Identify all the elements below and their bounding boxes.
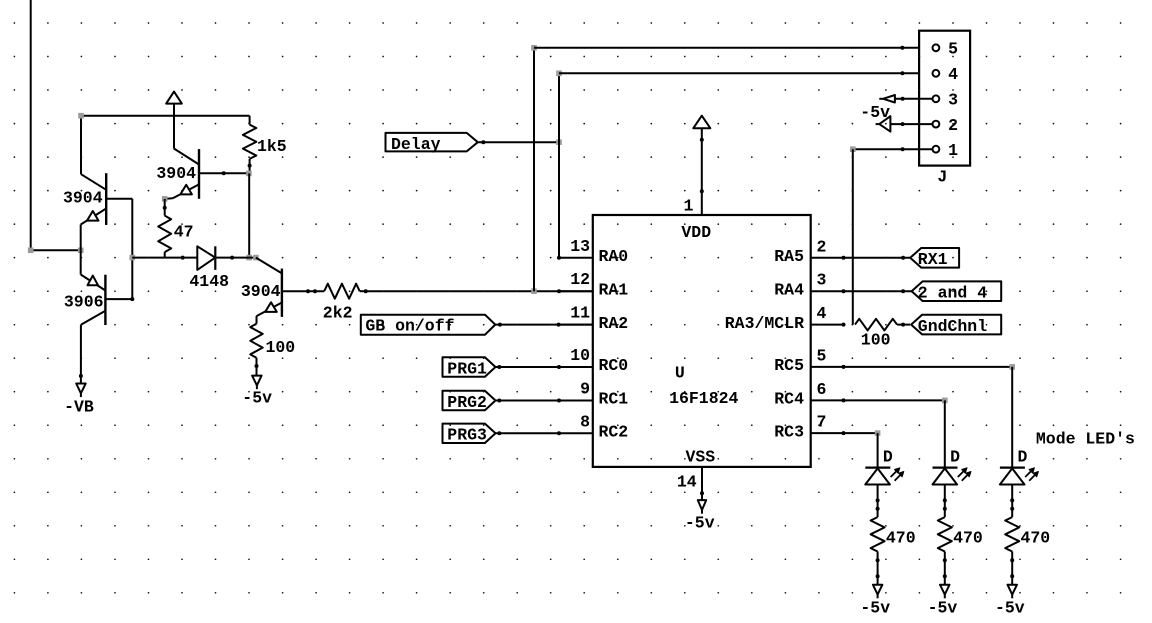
label 47 — [174, 223, 194, 242]
svg-text:-5v: -5v — [860, 598, 890, 617]
pin 9 RC1 — [559, 380, 628, 409]
label -5v left — [242, 389, 272, 408]
svg-text:RX1: RX1 — [918, 250, 948, 269]
pin 7 RC3 — [774, 413, 877, 442]
wire Q2 collector to -VB — [79, 325, 83, 384]
label PRG3 — [447, 426, 487, 445]
label GB on/off — [365, 317, 454, 336]
label -5v VSS — [685, 514, 715, 533]
svg-text:470: 470 — [953, 529, 983, 548]
svg-text:10: 10 — [570, 346, 590, 365]
flag GB on/off — [361, 315, 496, 335]
arrow J pin3 — [879, 95, 933, 103]
svg-text:PRG1: PRG1 — [447, 359, 487, 378]
label -5v J — [860, 103, 890, 122]
LED D3 — [1000, 468, 1039, 485]
svg-text:4148: 4148 — [189, 272, 229, 291]
LED D1 — [865, 468, 904, 485]
svg-text:GndChnl: GndChnl — [918, 317, 987, 336]
svg-text:J: J — [937, 168, 947, 187]
label 2k2 — [323, 304, 353, 323]
junction diode node — [246, 255, 252, 261]
wire J pin5 net — [534, 46, 933, 50]
svg-text:6: 6 — [817, 380, 827, 399]
label 2 and 4 — [918, 284, 987, 303]
power -5v symbol LED2 — [940, 585, 950, 599]
wire VCC rail top-left — [81, 116, 250, 175]
pin 13 RA0 — [559, 237, 628, 266]
label 16F1824 — [669, 389, 738, 408]
label -5v LED1 — [860, 598, 890, 617]
wire emitter node to diode — [132, 256, 197, 260]
label Q2 3906 — [64, 293, 104, 312]
wire PRG3 to pin — [496, 431, 562, 435]
label 100 — [266, 338, 296, 357]
power -VB symbol — [76, 384, 86, 398]
LED D2 — [933, 468, 972, 485]
svg-text:RA3/MCLR: RA3/MCLR — [725, 314, 804, 333]
wire riser pin4/RA0 — [557, 73, 561, 259]
svg-text:VSS: VSS — [686, 448, 716, 467]
svg-text:RC0: RC0 — [599, 356, 629, 375]
junction 1k5 bottom / Q3 base — [246, 171, 252, 177]
resistor R5 100 — [855, 319, 910, 331]
label -5v LED2 — [928, 598, 958, 617]
svg-text:1: 1 — [683, 197, 693, 216]
svg-text:RC4: RC4 — [774, 390, 804, 409]
label Q4 3904 — [241, 282, 281, 301]
label D3 — [1018, 448, 1028, 467]
pin 6 RC4 — [774, 380, 945, 409]
transistor Q4 3904 NPN — [256, 258, 324, 317]
svg-text:2k2: 2k2 — [323, 304, 353, 323]
resistor R3 2k2 — [324, 284, 368, 299]
diode D1 4148 — [197, 246, 215, 270]
svg-text:5: 5 — [817, 346, 827, 365]
junction riser pin4 top — [556, 71, 562, 77]
junction LED3 corner — [1009, 364, 1015, 370]
flag RX1 — [910, 248, 959, 268]
wire pin to LED2 — [944, 400, 946, 467]
svg-text:U: U — [675, 364, 685, 383]
resistor 470 #3 — [1005, 517, 1019, 585]
label 1k5 — [257, 137, 287, 156]
svg-text:D: D — [950, 448, 960, 467]
svg-text:13: 13 — [570, 237, 590, 256]
transistor Q1 3904 NPN — [81, 173, 133, 250]
svg-text:-VB: -VB — [64, 398, 94, 417]
wire RA1 net — [366, 289, 593, 293]
pin 3 RA4 — [774, 271, 911, 300]
power VDD symbol — [693, 116, 710, 129]
transistor Q2 3906 PNP — [81, 250, 135, 325]
svg-text:-5v: -5v — [242, 389, 272, 408]
pin 11 RA2 — [559, 304, 628, 333]
junction emitter node — [78, 248, 84, 254]
label VSS — [686, 448, 716, 467]
svg-text:3904: 3904 — [241, 282, 281, 301]
wire J pin1 net — [853, 147, 933, 151]
resistor R2 47 — [158, 199, 171, 258]
wire LED1 to resistor — [876, 485, 880, 518]
label 470 #1 — [886, 529, 916, 548]
svg-text:470: 470 — [1021, 529, 1051, 548]
junction riser pin5 top — [531, 45, 537, 51]
svg-text:RC5: RC5 — [774, 356, 804, 375]
wire LED2 to resistor — [943, 485, 947, 518]
pin 1 VDD stub — [683, 128, 703, 215]
label Q1 3904 — [63, 189, 103, 208]
resistor 470 #2 — [938, 517, 952, 585]
wire base bus Q1-Q2 — [131, 199, 133, 299]
junction pin1 corner — [850, 146, 856, 152]
svg-text:2: 2 — [817, 237, 827, 256]
svg-text:3906: 3906 — [64, 293, 104, 312]
label PRG1 — [447, 359, 487, 378]
wire diode to node — [215, 256, 256, 260]
resistor 470 #1 — [871, 517, 885, 585]
power -5v symbol LED1 — [873, 585, 883, 599]
svg-text:11: 11 — [570, 304, 590, 323]
resistor R1 1k5 — [243, 116, 256, 174]
svg-text:100: 100 — [861, 331, 891, 350]
pin 5 RC5 — [774, 346, 1012, 375]
svg-text:470: 470 — [886, 529, 916, 548]
svg-text:7: 7 — [817, 413, 827, 432]
transistor Q3 3904 NPN — [165, 148, 249, 199]
label D1 — [883, 448, 893, 467]
svg-text:3: 3 — [817, 271, 827, 290]
svg-text:Delay: Delay — [391, 135, 441, 154]
label Mode LED's — [1036, 430, 1135, 449]
wire riser pin1 to RA3/MCLR — [852, 149, 854, 324]
label GndChnl — [918, 317, 987, 336]
power -5v symbol left — [252, 376, 262, 390]
svg-text:D: D — [883, 448, 893, 467]
wire pin to LED1 — [877, 433, 879, 468]
svg-text:D: D — [1018, 448, 1028, 467]
svg-text:RC3: RC3 — [774, 422, 804, 441]
label -5v LED3 — [995, 598, 1025, 617]
svg-text:PRG2: PRG2 — [447, 393, 487, 412]
label Delay — [391, 135, 441, 154]
junction RA1 / pin5 riser — [531, 288, 537, 294]
junction Q4 collector — [253, 255, 259, 261]
junction LED2 corner — [942, 398, 948, 404]
svg-text:PRG3: PRG3 — [447, 426, 487, 445]
power -5v symbol VSS — [698, 500, 706, 514]
svg-text:4: 4 — [817, 304, 827, 323]
label -VB — [64, 398, 94, 417]
label 470 #2 — [953, 529, 983, 548]
junction input corner — [28, 248, 34, 254]
svg-text:12: 12 — [570, 270, 590, 289]
label 470 #3 — [1021, 529, 1051, 548]
svg-text:RA5: RA5 — [774, 247, 804, 266]
wire RA4 tick — [901, 289, 905, 293]
svg-text:-5v: -5v — [995, 598, 1025, 617]
pin 8 RC2 — [559, 412, 628, 441]
label 100 right — [861, 331, 891, 350]
svg-text:VDD: VDD — [681, 223, 711, 242]
svg-text:RC2: RC2 — [599, 423, 629, 442]
pin 2 RA5 — [774, 237, 910, 266]
label 4148 — [189, 272, 229, 291]
connector J pins — [933, 40, 959, 160]
power -5v arrow J pin2 — [876, 116, 934, 131]
flag PRG2 — [443, 391, 496, 410]
svg-text:4: 4 — [948, 65, 958, 84]
wire PRG1 to pin — [496, 365, 562, 369]
wire pin to LED3 — [1011, 367, 1013, 468]
wire Delay to RA0 riser — [478, 140, 559, 144]
wire LED3 to resistor — [1010, 485, 1014, 518]
junction Delay riser — [556, 139, 562, 145]
svg-text:3904: 3904 — [156, 164, 196, 183]
svg-text:14: 14 — [677, 473, 697, 492]
svg-text:-5v: -5v — [685, 514, 715, 533]
IC U 16F1824 body — [593, 215, 811, 467]
wire GB to RA2 — [495, 323, 593, 327]
power VCC symbol — [166, 92, 182, 149]
svg-text:5: 5 — [948, 40, 958, 59]
svg-text:-5v: -5v — [928, 598, 958, 617]
flag PRG1 — [443, 357, 496, 376]
junction VCC rail left corner — [78, 113, 84, 119]
junction LED1 corner — [875, 430, 881, 436]
svg-text:2 and 4: 2 and 4 — [918, 284, 987, 303]
svg-text:2: 2 — [948, 116, 958, 135]
svg-text:RA0: RA0 — [599, 247, 629, 266]
junction base bus — [130, 255, 136, 261]
label D2 — [950, 448, 960, 467]
label PRG2 — [447, 393, 487, 412]
wire 1k5 node down — [248, 173, 250, 257]
pin 12 RA1 — [559, 270, 628, 299]
junction Q3 emitter — [162, 196, 168, 202]
label RX1 — [918, 250, 948, 269]
svg-text:8: 8 — [580, 412, 590, 431]
wire J pin4 net — [559, 71, 933, 75]
svg-text:-5v: -5v — [860, 103, 890, 122]
svg-text:47: 47 — [174, 223, 194, 242]
pin 14 VSS stub — [677, 467, 704, 500]
svg-text:9: 9 — [580, 380, 590, 399]
svg-text:RA2: RA2 — [599, 314, 629, 333]
flag Delay — [386, 133, 478, 152]
wire RA5 tick — [901, 256, 905, 260]
resistor R4 100 — [250, 316, 262, 376]
svg-text:Mode LED's: Mode LED's — [1036, 430, 1135, 449]
label VDD — [681, 223, 711, 242]
svg-text:RC1: RC1 — [599, 390, 629, 409]
svg-text:1k5: 1k5 — [257, 137, 287, 156]
svg-text:RA4: RA4 — [774, 280, 804, 299]
flag PRG3 — [443, 424, 496, 443]
pin 10 RC0 — [559, 346, 628, 375]
label Q3 3904 — [156, 164, 196, 183]
svg-text:GB on/off: GB on/off — [365, 317, 454, 336]
svg-text:3904: 3904 — [63, 189, 103, 208]
connector J body — [919, 31, 970, 166]
label J — [937, 168, 947, 187]
wire PRG2 to pin — [496, 399, 562, 403]
wire input net from top left — [31, 0, 81, 250]
svg-text:RA1: RA1 — [599, 280, 629, 299]
svg-text:100: 100 — [266, 338, 296, 357]
wire riser pin5/RA1 — [533, 48, 535, 291]
label U — [675, 364, 685, 383]
pin 4 RA3/MCLR — [725, 304, 846, 333]
svg-text:16F1824: 16F1824 — [669, 389, 738, 408]
flag GndChnl — [911, 315, 1001, 335]
svg-text:3: 3 — [948, 91, 958, 110]
power -5v symbol LED3 — [1008, 585, 1018, 599]
flag 2 and 4 — [912, 281, 1002, 301]
